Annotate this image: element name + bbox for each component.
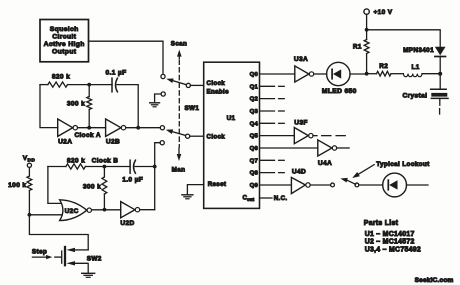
svg-text:Q4: Q4	[250, 121, 259, 127]
svg-text:+10 V: +10 V	[374, 9, 393, 16]
svg-text:Q6: Q6	[250, 146, 259, 152]
svg-text:U2C: U2C	[65, 208, 79, 215]
svg-text:0.1 µF: 0.1 µF	[106, 69, 127, 76]
svg-text:820 k: 820 k	[52, 74, 70, 81]
svg-text:MPN3401: MPN3401	[403, 47, 434, 54]
svg-text:Enable: Enable	[207, 89, 230, 96]
svg-text:Q2: Q2	[250, 97, 259, 103]
svg-text:Reset: Reset	[208, 181, 227, 188]
svg-text:Q5: Q5	[250, 134, 259, 140]
svg-text:Q1: Q1	[250, 84, 259, 90]
svg-text:U4A: U4A	[318, 160, 332, 167]
svg-text:300 k: 300 k	[67, 100, 85, 107]
svg-text:300 k: 300 k	[83, 183, 101, 190]
svg-text:U2D: U2D	[120, 220, 134, 227]
svg-text:R2: R2	[379, 63, 388, 70]
svg-text:U2A: U2A	[58, 139, 72, 146]
svg-text:U1 – MC14017: U1 – MC14017	[365, 231, 415, 238]
svg-text:Q3: Q3	[250, 109, 259, 115]
svg-text:SeekIC.com: SeekIC.com	[415, 277, 454, 284]
svg-text:Squelch: Squelch	[50, 26, 79, 33]
svg-text:R1: R1	[353, 43, 362, 50]
svg-text:820 k: 820 k	[67, 157, 85, 164]
svg-text:U2B: U2B	[106, 139, 120, 146]
svg-text:U3F: U3F	[294, 120, 308, 127]
svg-text:Circuit: Circuit	[52, 34, 76, 41]
svg-text:1.0 µF: 1.0 µF	[122, 177, 143, 184]
svg-text:Q7: Q7	[250, 158, 259, 164]
svg-text:Clock: Clock	[207, 80, 226, 87]
svg-text:Q9: Q9	[250, 183, 259, 189]
svg-text:Crystal: Crystal	[402, 92, 427, 99]
svg-text:MLED 650: MLED 650	[322, 88, 357, 95]
svg-text:Clock B: Clock B	[92, 157, 119, 164]
svg-text:U1: U1	[227, 115, 236, 122]
svg-text:Output: Output	[52, 49, 77, 56]
svg-text:Typical Lockout: Typical Lockout	[376, 161, 430, 168]
svg-text:Q8: Q8	[250, 171, 259, 177]
svg-text:100 k: 100 k	[8, 182, 26, 189]
svg-text:U4D: U4D	[292, 169, 306, 176]
svg-text:SW2: SW2	[87, 255, 102, 262]
svg-text:U3,4 – MC75492: U3,4 – MC75492	[365, 246, 421, 253]
svg-text:Clock: Clock	[207, 134, 226, 141]
svg-text:U3A: U3A	[294, 56, 308, 63]
svg-text:Parts List: Parts List	[364, 220, 399, 227]
svg-text:Active High: Active High	[44, 41, 85, 48]
svg-text:Q0: Q0	[250, 72, 259, 78]
svg-text:Man: Man	[172, 166, 186, 173]
svg-text:Step: Step	[32, 248, 47, 255]
svg-text:L1: L1	[412, 64, 420, 71]
svg-text:SW1: SW1	[185, 105, 200, 112]
svg-text:N.C.: N.C.	[274, 195, 288, 202]
svg-text:Scan: Scan	[171, 41, 187, 48]
svg-text:Clock A: Clock A	[74, 132, 100, 139]
svg-text:U2 – MC14572: U2 – MC14572	[365, 239, 415, 246]
